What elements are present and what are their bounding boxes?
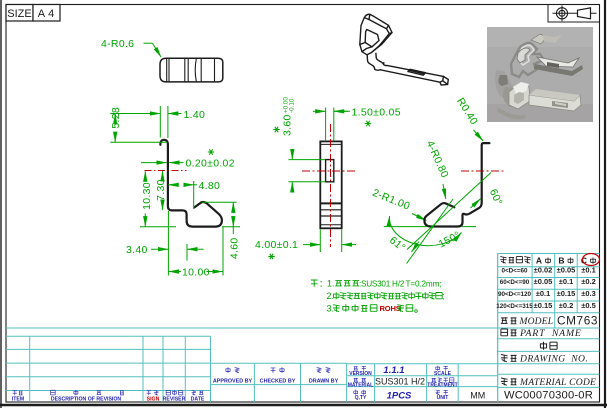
svg-text:A: A [536,256,542,266]
part name value [498,342,600,352]
approval block grid [211,363,347,402]
svg-text:±0.05: ±0.05 [557,266,576,275]
svg-text:0.20±0.02: 0.20±0.02 [186,158,235,170]
top flat-pattern view outline [160,58,223,82]
svg-text:10.00: 10.00 [182,267,210,279]
svg-text:±0.1: ±0.1 [536,289,551,298]
svg-text:±0.5: ±0.5 [581,301,596,310]
svg-text:ROHS: ROHS [380,304,401,313]
revision header ITEM [12,391,24,403]
svg-text:PART NAME: PART NAME [519,328,582,339]
dim 7.30 [155,171,167,210]
material code value [498,387,600,401]
svg-text:±0.2: ±0.2 [559,301,574,310]
version labels [348,366,373,401]
third-angle projection symbol box [548,5,600,23]
svg-text:MATERIAL CODE: MATERIAL CODE [519,377,596,388]
svg-text:0<D<=60: 0<D<=60 [501,268,528,275]
svg-text:MM: MM [470,391,485,401]
svg-text:±0.3: ±0.3 [581,289,596,298]
svg-text:MATERIAL: MATERIAL [348,382,373,388]
part name row [498,328,600,339]
svg-text:1.: 1. [327,279,335,289]
svg-text:DRAWING NO.: DRAWING NO. [519,354,588,365]
svg-text:±0.1: ±0.1 [581,266,596,275]
right view centerline [461,170,504,172]
svg-text:DRAWN BY: DRAWN BY [309,379,339,385]
notes line 1 [311,279,441,289]
front view bend lines [320,203,341,224]
notes line 2 [327,291,445,301]
svg-text:120<D<=315: 120<D<=315 [496,303,533,310]
svg-text:90<D<=120: 90<D<=120 [498,291,532,298]
dim 0.20±0.02 [141,149,235,169]
construction line 61deg [407,199,453,264]
svg-text:3.60: 3.60 [282,114,294,136]
svg-text:4.60: 4.60 [228,237,240,259]
svg-text:TREATMENT: TREATMENT [427,382,457,388]
construction line 60deg [407,173,491,250]
svg-text:WC00070300-0R: WC00070300-0R [504,390,593,402]
svg-text:ITEM: ITEM [12,397,24,403]
top view bend lines [167,58,215,82]
svg-text:5.28: 5.28 [110,107,122,129]
tolerance header [500,254,599,266]
approval CHECKED BY [260,367,296,384]
dim 4.80 [168,180,220,209]
svg-text:4-R0.6: 4-R0.6 [101,38,134,50]
svg-text:Q,TY: Q,TY [355,395,367,401]
svg-text:4.00±0.1: 4.00±0.1 [255,239,298,251]
svg-text:VERSION: VERSION [349,371,372,377]
approval DRAWN BY [309,368,339,385]
svg-text:UNIT: UNIT [437,395,449,401]
front view vertical centerline [330,124,332,247]
svg-text:4.80: 4.80 [199,180,221,192]
svg-text:1.50±0.05: 1.50±0.05 [352,106,401,118]
svg-text:±0.15: ±0.15 [534,301,553,310]
svg-text::SUS301 H/2: :SUS301 H/2 [359,280,405,289]
svg-text:APPROVED BY: APPROVED BY [213,379,253,385]
leader 4-R0.6 [101,38,161,57]
photo of actual part [487,27,593,122]
tolerance table grid [498,254,600,313]
svg-text:±0.2: ±0.2 [581,277,596,286]
front view top edge line [320,143,341,145]
svg-text:REVISER: REVISER [163,397,186,403]
revision header DESCRIPTION [51,390,124,403]
SIZE label box [6,5,33,22]
revision header REVISER [163,390,186,402]
svg-text:MODEL: MODEL [519,317,554,327]
svg-text:A 4: A 4 [38,8,55,20]
dim 3.60 +0.00/-0.10 [273,97,325,192]
svg-text:±0.05: ±0.05 [534,277,553,286]
tolerance rows [496,266,596,310]
revision table grid [6,336,211,402]
svg-text:B: B [558,256,564,266]
dim 3.40 [126,244,204,261]
svg-text:60<D<=90: 60<D<=90 [500,279,530,286]
svg-text:DATE: DATE [191,397,205,403]
title block divider [497,254,499,403]
bottom strip top line [6,327,600,329]
version block grid [347,364,498,402]
svg-text:SCALE: SCALE [434,371,452,377]
svg-text:1.1.1: 1.1.1 [383,365,404,376]
svg-text:±0.15: ±0.15 [557,289,576,298]
label 4-R0.80 [424,139,451,199]
svg-text:SIZE: SIZE [7,8,31,20]
svg-text:-0.10: -0.10 [288,98,295,113]
notes line 3 [327,304,418,314]
label R0.40 [454,96,483,141]
dim 4.00±0.1 [255,230,356,260]
svg-text:;: ; [442,291,445,301]
model row [501,313,598,328]
svg-text:1PCS: 1PCS [387,391,412,402]
svg-text:10.30: 10.30 [141,182,153,210]
svg-text:3.40: 3.40 [126,244,148,256]
front view horizontal centerline [302,170,356,172]
dim 10.00 [168,211,223,279]
svg-text:CHECKED BY: CHECKED BY [260,379,296,385]
left view centerline [145,170,187,172]
dim 1.40 [146,106,205,138]
approval APPROVED BY [213,367,253,384]
revision header DATE [191,391,205,403]
svg-text:DESCRIPTION OF REVISION: DESCRIPTION OF REVISION [51,397,122,403]
front view outline [320,141,341,228]
isometric view of clip [360,14,449,85]
sheet format A4 box [33,5,60,22]
svg-text:1.40: 1.40 [184,109,206,121]
svg-text:SUS301 H/2: SUS301 H/2 [375,377,425,387]
svg-text:2.: 2. [327,291,335,301]
left side view profile [160,140,222,227]
dim 5.28 [110,107,167,142]
svg-text:7.30: 7.30 [155,179,167,201]
svg-text:±0.02: ±0.02 [534,266,553,275]
dim 10.30 [140,171,176,227]
svg-text:±0.1: ±0.1 [559,277,574,286]
version values [375,365,425,402]
dim 4.60 [202,202,240,259]
svg-text:CM763: CM763 [557,314,598,328]
material code row [498,374,600,388]
right side view profile [424,143,489,226]
front view slot [326,160,334,182]
svg-text:3.: 3. [327,304,335,314]
revision header SIGN [147,391,160,403]
angle arc 150deg [384,216,476,246]
scale/treatment/unit labels [427,366,457,401]
svg-text:T=0.2mm;: T=0.2mm; [406,280,442,289]
drawing no row [498,354,600,365]
svg-text:SIGN: SIGN [147,397,160,403]
label 2-R1.00 [371,187,427,221]
dim 1.50±0.05 [313,106,401,141]
